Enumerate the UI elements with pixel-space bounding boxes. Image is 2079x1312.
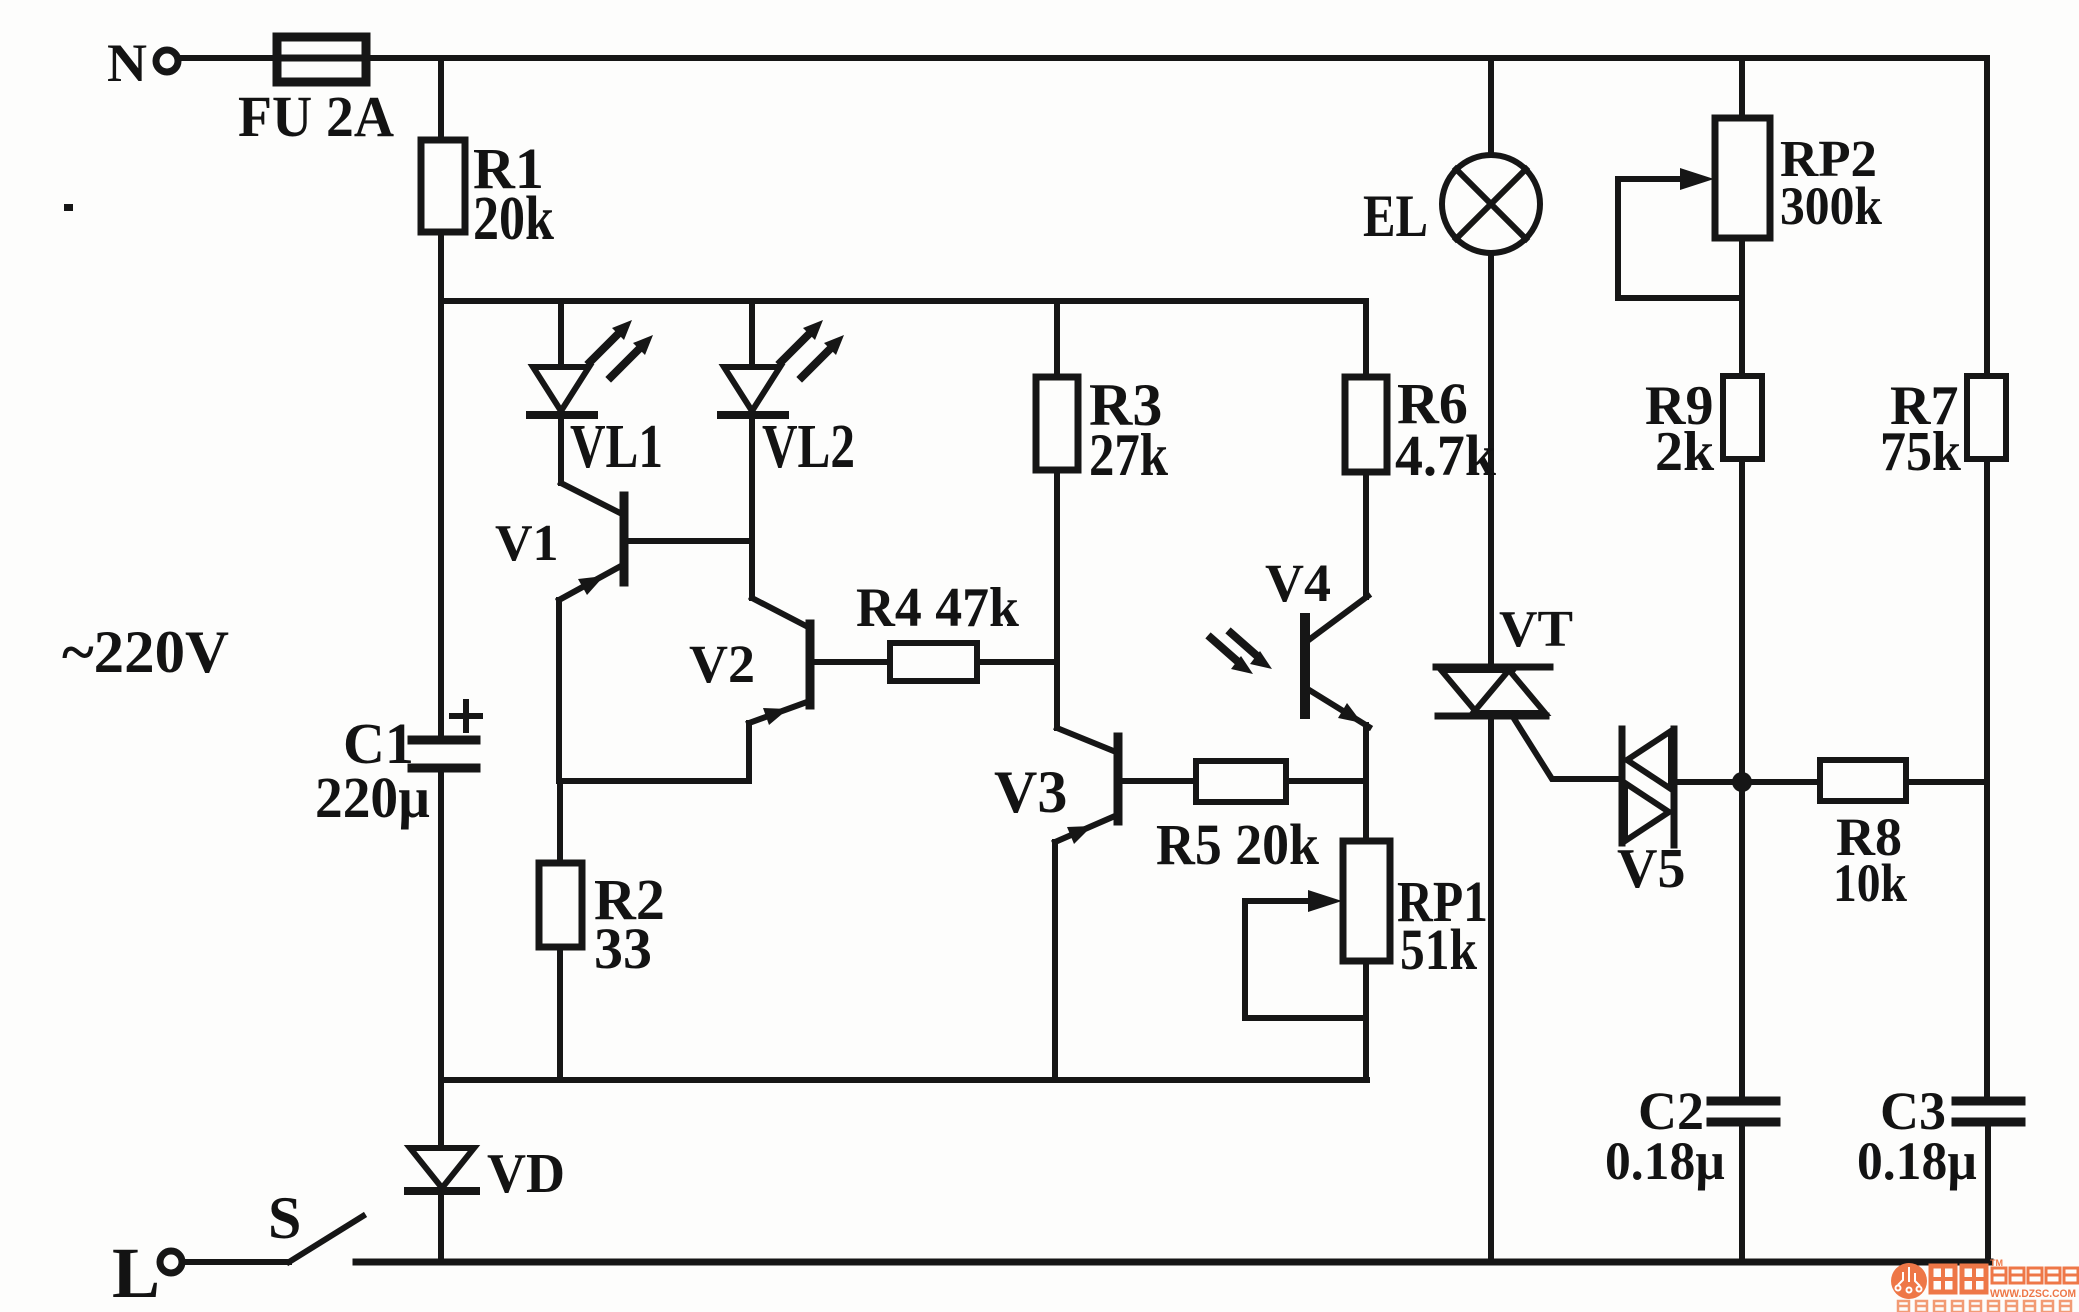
wire: RP2 bottom to R9: [1739, 238, 1745, 376]
wire: C1 down to VD: [438, 772, 444, 1148]
transistor V2: [752, 598, 808, 627]
wire: R2 to inner bottom edge: [557, 947, 563, 1080]
transistor V3: [1057, 728, 1116, 752]
wire: bottom L rail: [356, 1259, 1990, 1266]
resistor R7: [1967, 376, 2006, 459]
wire: VL2 anode stem: [749, 301, 755, 367]
potentiometer RP1: [1343, 841, 1390, 961]
wire: inner box bottom edge: [441, 1077, 1367, 1083]
node N terminal: [156, 50, 178, 72]
capacitor C1: [412, 736, 476, 745]
svg-text:51k: 51k: [1400, 917, 1478, 982]
svg-text:EL: EL: [1363, 183, 1428, 249]
svg-text:33: 33: [594, 916, 652, 981]
svg-text:0.18µ: 0.18µ: [1857, 1131, 1977, 1191]
resistor R4: [812, 659, 890, 665]
svg-text:S: S: [268, 1185, 301, 1251]
watermark logo circle: [1891, 1263, 1927, 1299]
watermark slogan row: [1898, 1301, 2071, 1312]
wire: EL stem from top rail: [1488, 58, 1494, 155]
wire: V1 emitter down: [556, 600, 562, 781]
potentiometer RP2: [1715, 118, 1770, 238]
svg-text:4.7k: 4.7k: [1395, 423, 1497, 488]
svg-text:V3: V3: [994, 759, 1067, 825]
svg-text:300k: 300k: [1780, 176, 1882, 236]
svg-text:10k: 10k: [1833, 853, 1907, 913]
wire: VL2 cathode down to V2 collector: [749, 418, 755, 598]
wire: EL down to triac: [1488, 253, 1494, 667]
wire: R3 stem: [1054, 301, 1060, 377]
svg-text:~220V: ~220V: [62, 619, 229, 685]
svg-text:R5 20k: R5 20k: [1156, 812, 1320, 877]
resistor R3: [1036, 377, 1078, 470]
wire: V4 emitter down to RP1: [1363, 725, 1369, 841]
svg-text:FU 2A: FU 2A: [238, 84, 394, 149]
watermark text dianzishichangwang: [1992, 1268, 2078, 1283]
wire: VD to bottom rail: [438, 1194, 444, 1262]
node L terminal: [160, 1251, 182, 1273]
wire: V2 emitter down: [746, 723, 752, 781]
resistor R8: [1752, 779, 1820, 785]
svg-text:75k: 75k: [1880, 421, 1962, 483]
svg-text:V4: V4: [1265, 553, 1331, 613]
wire: C3 to bottom rail: [1985, 1126, 1991, 1262]
wire: L terminal lead: [183, 1259, 289, 1265]
wire: left vertical from top rail to R1: [438, 58, 444, 140]
wire: RP2 stem from top rail: [1739, 58, 1745, 118]
wire: V3 base to R5: [1121, 778, 1196, 784]
svg-text:220µ: 220µ: [315, 765, 430, 830]
LED VL1: [533, 367, 589, 411]
svg-text:VL2: VL2: [762, 413, 855, 481]
svg-text:20k: 20k: [473, 185, 554, 253]
wire: diac to gate node: [1674, 779, 1742, 785]
svg-text:V2: V2: [689, 634, 755, 694]
svg-text:V5: V5: [1617, 838, 1685, 900]
wire: C2 to bottom rail: [1739, 1126, 1745, 1262]
wire: top N rail from terminal to top-right corner: [179, 55, 1987, 61]
svg-text:VL1: VL1: [570, 413, 663, 481]
resistor R9: [1723, 376, 1762, 459]
wire: VL1 anode stem: [558, 301, 564, 367]
svg-text:0.18µ: 0.18µ: [1605, 1131, 1725, 1191]
wire: R1 to C1: [438, 232, 444, 736]
switch S blade: [289, 1216, 363, 1262]
svg-text:N: N: [107, 33, 147, 93]
capacitor C1 plus sign: [452, 702, 480, 730]
capacitor C3: [1956, 1097, 2021, 1106]
wire: emitter rail to R2: [559, 781, 749, 863]
diac V5: [1619, 729, 1626, 843]
capacitor C2: [1711, 1097, 1776, 1106]
wire: V3 emitter down to inner bottom edge: [1052, 842, 1058, 1080]
triac VT: [1436, 664, 1550, 671]
wire: inner box top edge: [441, 301, 1366, 377]
svg-text:L: L: [112, 1233, 160, 1312]
svg-text:WWW.DZSC.COM: WWW.DZSC.COM: [1990, 1288, 2076, 1300]
resistor R2: [539, 863, 582, 947]
transistor V1: [561, 483, 622, 514]
resistor R1: [421, 140, 465, 232]
fuse FU 2A: [277, 37, 366, 82]
speck: [64, 204, 73, 211]
wire: VT main terminal to bottom rail: [1488, 717, 1494, 1262]
wire: RP1 bottom to inner bottom edge: [1363, 961, 1369, 1080]
svg-text:VT: VT: [1499, 601, 1573, 658]
svg-text:V1: V1: [495, 515, 559, 572]
wire: right edge R7 to C3: [1984, 459, 1990, 1096]
watermark text 维库: [1931, 1266, 1986, 1292]
wire: VL1 cathode to V1 collector: [558, 418, 564, 483]
svg-text:27k: 27k: [1089, 422, 1169, 488]
svg-text:2k: 2k: [1655, 421, 1715, 483]
wire: R6 to V4 collector: [1363, 472, 1369, 597]
wire: R3 down to V3 collector: [1054, 470, 1060, 728]
resistor R5: [1196, 761, 1286, 802]
node gate junction: [1732, 772, 1752, 792]
lamp EL: [1442, 155, 1540, 253]
wire: V1 base to VL2 stem: [626, 538, 752, 544]
transistor V4 phototransistor: [1306, 596, 1368, 642]
wire: right edge from top corner down to R7: [1984, 58, 1990, 376]
resistor R6: [1345, 377, 1387, 472]
diode VD: [410, 1148, 474, 1188]
wire: VT gate: [1513, 717, 1622, 779]
svg-text:VD: VD: [487, 1143, 565, 1205]
svg-text:R4 47k: R4 47k: [856, 577, 1020, 639]
LED VL2: [724, 367, 780, 411]
wire: R9 down to C2: [1739, 459, 1745, 1096]
